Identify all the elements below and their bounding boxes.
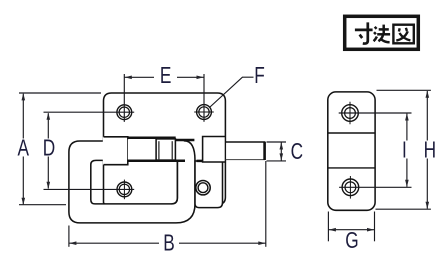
dim C extension bottom [267,160,287,162]
side plate outline [328,92,375,210]
arrow E right [197,76,204,80]
kanji 寸 (drawn strokes) [355,22,373,43]
arrow A up [22,93,26,100]
svg-text:A: A [18,136,30,161]
dim C extension top [267,141,287,143]
dim H extension top [377,89,431,91]
bolt rod (protruding pin) [226,143,264,159]
svg-text:E: E [160,64,172,89]
base plate P1 (front view mounting plate) [104,93,226,204]
svg-text:G: G [345,229,358,254]
arrow G left [329,228,336,232]
side hole top (cross hole) [342,102,359,125]
padlock hole (plain hole, outer circle) [196,181,210,195]
dim D extension top / hole crosshair [44,111,135,113]
svg-text:F: F [254,64,265,89]
svg-text:I: I [402,138,407,163]
knob inner right line [171,141,173,159]
dim H extension bottom [376,208,431,210]
left guide block [103,137,128,165]
arrow D up [47,113,51,120]
inner edge of down-bent arm [172,161,178,204]
dim H line [426,91,428,141]
dim G line [328,229,374,231]
dim G extension left [327,212,329,242]
handle U-strap (latch bar grip loop) [69,141,195,223]
kanji 法 (drawn strokes) [374,25,391,43]
bolt bold bottom edge [128,160,185,163]
arrow I up [405,113,409,120]
arrowheads side view [329,91,429,232]
side divider lower [328,167,375,169]
title box frame [345,16,419,49]
rod top edge [226,141,265,143]
dim B line [69,242,159,244]
dim E extension right / hole centerline [203,74,205,122]
bracket plate (grip end with padlock hole) [195,161,223,208]
arrow E left [125,76,132,80]
arrow H up [426,91,430,98]
bolt bold top edge (right step) [176,139,195,142]
dim E extension left / hole centerline [123,74,125,122]
screw hole top-left (cross hole) [117,105,132,120]
dim G extension right [374,212,376,242]
dim A extension bottom [19,204,66,206]
dim E line [124,76,154,78]
dim D line [47,113,49,138]
arrow G right [367,228,374,232]
dim I extension bottom / crosshair [339,186,411,188]
leader line F [210,77,254,107]
arrowheads front view [22,76,284,246]
svg-text:C: C [291,140,303,165]
bold channel bottom stub at bracket [197,160,203,163]
arrow A down [22,198,26,205]
padlock hole inner circle [198,183,208,193]
bolt bold top edge (left section) [128,137,176,140]
screw hole top-right (cross hole) [194,105,214,120]
svg-text:B: B [163,231,175,256]
dim D extension bottom / hole crosshair [44,188,135,190]
svg-text:H: H [424,138,436,163]
bolt body white between bold edges [128,139,184,159]
rod bottom edge [226,159,265,161]
arrow C up [280,142,284,149]
dim I extension top / crosshair [339,112,412,114]
arrow H down [426,202,430,209]
dim A line [22,94,24,139]
side divider upper [328,132,375,134]
rod end bold cap [263,142,266,160]
knob (slide button) [156,139,175,160]
dim C line [280,142,282,161]
arrow B left [69,241,76,245]
knob inner left line [158,141,160,159]
arrow C down [280,153,284,160]
arrow B right [258,241,265,245]
right guide block [203,137,225,163]
dim A extension top [19,92,101,94]
dim B extension right [265,161,267,247]
arrow I down [405,180,409,187]
dim B extension left [68,226,70,247]
side hole bottom (cross hole) [342,176,359,199]
screw hole bottom-left (cross hole) [117,180,132,200]
kanji 図 (drawn strokes) [393,25,413,44]
arrow D down [47,182,51,189]
dim I line [406,114,408,141]
svg-text:D: D [43,136,55,161]
